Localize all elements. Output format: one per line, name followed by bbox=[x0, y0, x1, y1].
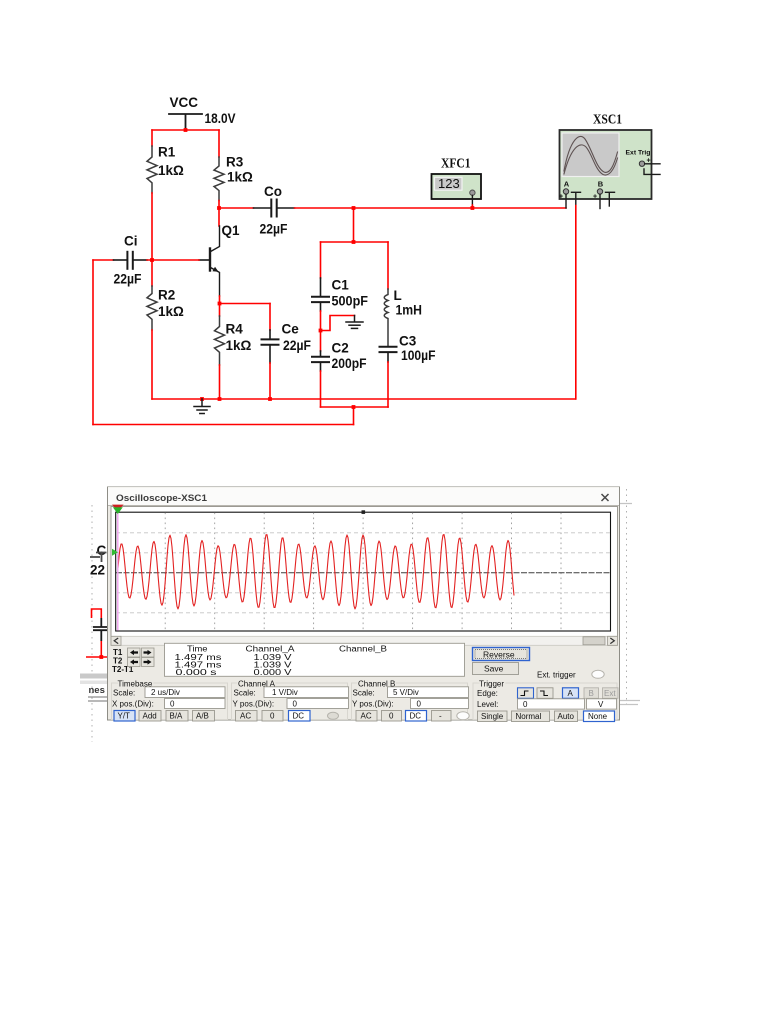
group Trigger bbox=[473, 680, 618, 722]
waveform channel A bbox=[118, 535, 514, 609]
node R4 on bus bbox=[218, 397, 222, 401]
svg-text:-: - bbox=[439, 712, 442, 721]
background page boundary dashed line right bbox=[626, 489, 628, 706]
svg-text:1kΩ: 1kΩ bbox=[158, 304, 184, 319]
svg-text:L: L bbox=[394, 288, 402, 303]
wire ground bus bbox=[152, 398, 576, 400]
svg-text:R3: R3 bbox=[226, 155, 244, 170]
wire scope A minus pin bbox=[575, 193, 577, 206]
wire base row bbox=[147, 259, 199, 261]
grid vertical dotted lines bbox=[165, 513, 561, 632]
svg-text:B/A: B/A bbox=[170, 712, 184, 721]
node tank top bbox=[352, 240, 356, 244]
wire tank ground tap bbox=[321, 316, 355, 331]
svg-text:None: None bbox=[588, 712, 608, 721]
svg-text:+: + bbox=[593, 194, 597, 201]
wire C1 to C2 bbox=[320, 311, 322, 351]
background gray band left bbox=[80, 674, 107, 679]
button Reverse bbox=[473, 648, 530, 661]
node XFC1 tap on output wire bbox=[471, 206, 475, 210]
background gray lines right bbox=[620, 504, 640, 705]
svg-text:Trigger: Trigger bbox=[479, 680, 504, 689]
cursor 1 vertical line bbox=[117, 513, 119, 631]
background hidden wire corner bbox=[92, 609, 102, 618]
resistor R4 bbox=[215, 316, 225, 365]
ground symbol tank bbox=[346, 316, 363, 329]
svg-text:200pF: 200pF bbox=[332, 356, 367, 371]
svg-text:1kΩ: 1kΩ bbox=[226, 338, 252, 353]
window close button bbox=[602, 494, 609, 501]
wire R1 top bbox=[151, 130, 153, 146]
svg-text:22: 22 bbox=[90, 563, 105, 578]
svg-text:Channel_B: Channel_B bbox=[339, 645, 387, 654]
background page boundary dashed line left bbox=[91, 505, 93, 742]
svg-text:XFC1: XFC1 bbox=[441, 157, 471, 172]
plot white container bbox=[111, 507, 618, 638]
svg-text:22µF: 22µF bbox=[260, 222, 288, 237]
svg-text:X pos.(Div):: X pos.(Div): bbox=[112, 699, 154, 708]
background hidden capacitor plates bbox=[93, 618, 107, 641]
capacitor C2 bbox=[312, 351, 329, 371]
svg-text:18.0V: 18.0V bbox=[205, 111, 236, 126]
svg-text:22µF: 22µF bbox=[283, 338, 311, 353]
svg-text:A/B: A/B bbox=[196, 712, 209, 721]
scrollbar row bbox=[111, 636, 618, 645]
svg-text:A: A bbox=[568, 689, 574, 698]
svg-text:Auto: Auto bbox=[558, 712, 575, 721]
svg-text:B: B bbox=[589, 689, 594, 698]
node collector junction bbox=[217, 206, 221, 210]
grid horizontal dashed lines bbox=[116, 533, 610, 613]
svg-text:V: V bbox=[598, 700, 604, 709]
wire output row left bbox=[219, 207, 254, 209]
plot area border bbox=[116, 512, 611, 631]
wire output row right bbox=[295, 207, 567, 209]
svg-text:Single: Single bbox=[481, 712, 504, 721]
readout headers bbox=[187, 645, 387, 654]
wire R3 top bbox=[218, 130, 220, 157]
node Ce on bus bbox=[268, 397, 272, 401]
svg-text:C1: C1 bbox=[332, 278, 350, 293]
oscilloscope window frame bbox=[108, 487, 620, 720]
resistor R3 bbox=[214, 157, 224, 201]
wire C1 top bbox=[320, 242, 322, 278]
svg-text:B: B bbox=[598, 179, 604, 188]
svg-text:Co: Co bbox=[264, 184, 282, 199]
instrument XSC1 box bbox=[560, 130, 652, 199]
wire tank top edge bbox=[321, 241, 389, 243]
svg-text:22µF: 22µF bbox=[114, 272, 142, 287]
wire C2 bottom bbox=[320, 371, 322, 407]
svg-text:0: 0 bbox=[417, 699, 422, 708]
background hidden junction bbox=[99, 655, 103, 659]
ext trigger terminal ellipse bbox=[592, 670, 604, 678]
terminal XSC1 B bbox=[593, 189, 615, 201]
button Save bbox=[473, 663, 519, 675]
svg-text:1 V/Div: 1 V/Div bbox=[272, 688, 298, 697]
cursor T2 marker bbox=[362, 510, 366, 514]
svg-text:Add: Add bbox=[143, 712, 157, 721]
wire scope B plus pin dangling bbox=[599, 194, 601, 208]
svg-text:DC: DC bbox=[293, 712, 305, 721]
background hidden wire lower bbox=[86, 641, 107, 657]
channel A reference marker bbox=[112, 549, 118, 556]
capacitor Ci bbox=[114, 252, 148, 269]
capacitor C3 bbox=[380, 347, 397, 362]
svg-text:100µF: 100µF bbox=[401, 348, 436, 363]
cursor readout labels T1 T2 bbox=[112, 648, 134, 674]
wire Ce bottom bbox=[269, 363, 271, 399]
group Timebase bbox=[112, 680, 228, 721]
svg-text:VCC: VCC bbox=[170, 95, 199, 110]
svg-text:R2: R2 bbox=[158, 288, 175, 303]
wire scope A plus pin bbox=[565, 194, 567, 208]
cursor 1 handle bbox=[112, 505, 124, 512]
svg-text:Save: Save bbox=[484, 664, 504, 674]
svg-text:Ext. trigger: Ext. trigger bbox=[537, 671, 576, 680]
svg-text:AC: AC bbox=[361, 712, 372, 721]
svg-text:Q1: Q1 bbox=[222, 223, 241, 238]
svg-text:500pF: 500pF bbox=[332, 294, 369, 309]
wire collector stub bbox=[218, 208, 220, 226]
wire tank bottom edge bbox=[321, 406, 389, 408]
terminal XSC1 A bbox=[559, 189, 581, 201]
svg-text:C2: C2 bbox=[332, 341, 349, 356]
group Channel B bbox=[352, 680, 470, 721]
wire R2 bottom bbox=[151, 330, 153, 399]
node tank ground junction bbox=[319, 329, 323, 333]
svg-text:0.000 s: 0.000 s bbox=[176, 668, 217, 677]
background gray lines left bbox=[88, 697, 107, 701]
svg-text:Y pos.(Div):: Y pos.(Div): bbox=[352, 699, 394, 708]
svg-text:Scale:: Scale: bbox=[353, 689, 375, 698]
instrument XFC1 box bbox=[432, 174, 482, 199]
svg-text:Level:: Level: bbox=[477, 700, 498, 709]
resistor R1 bbox=[147, 146, 157, 193]
svg-text:XSC1: XSC1 bbox=[593, 113, 622, 128]
svg-text:Scale:: Scale: bbox=[234, 689, 256, 698]
capacitor C1 bbox=[312, 278, 329, 311]
svg-text:Y pos.(Div):: Y pos.(Div): bbox=[233, 699, 275, 708]
svg-text:Reverse: Reverse bbox=[483, 650, 515, 660]
svg-text:Ext: Ext bbox=[604, 689, 616, 698]
wire Ci left bbox=[93, 259, 114, 261]
node base junction bbox=[150, 258, 154, 262]
wire R1 bottom to base node bbox=[151, 193, 153, 260]
svg-text:0: 0 bbox=[270, 712, 275, 721]
svg-text:5 V/Div: 5 V/Div bbox=[393, 688, 419, 697]
wire Ce top bbox=[269, 304, 271, 331]
svg-text:R1: R1 bbox=[158, 145, 176, 160]
node VCC junction bbox=[184, 128, 188, 132]
capacitor Co bbox=[254, 200, 295, 217]
wire emitter stub bbox=[219, 296, 221, 304]
wire tank top tap bbox=[353, 208, 355, 242]
svg-text:A: A bbox=[564, 179, 570, 188]
background hidden capacitor symbol bbox=[90, 552, 107, 563]
svg-text:0.000 V: 0.000 V bbox=[254, 668, 293, 677]
wire emitter to Ce bbox=[220, 303, 271, 305]
node ground tap bbox=[200, 397, 204, 401]
svg-text:Y/T: Y/T bbox=[118, 712, 131, 721]
resistor R2 bbox=[147, 286, 157, 330]
wire XFC1 pin red bbox=[471, 205, 473, 208]
svg-text:Ext Trig: Ext Trig bbox=[626, 150, 651, 157]
wire R4 bottom bbox=[219, 365, 221, 399]
wire scope B minus pin dangling bbox=[608, 193, 610, 206]
wire scope A minus to bus bbox=[575, 206, 577, 400]
wire feedback left bbox=[92, 260, 94, 425]
svg-text:C3: C3 bbox=[399, 334, 417, 349]
svg-text:AC: AC bbox=[240, 712, 251, 721]
svg-text:nes: nes bbox=[89, 685, 105, 696]
svg-text:2 us/Div: 2 us/Div bbox=[151, 688, 180, 697]
svg-text:Ce: Ce bbox=[282, 322, 300, 337]
svg-text:123: 123 bbox=[438, 176, 460, 191]
node tank tap on output wire bbox=[352, 206, 356, 210]
svg-text:0: 0 bbox=[293, 699, 298, 708]
svg-text:DC: DC bbox=[410, 712, 422, 721]
wire tank bottom drop bbox=[353, 407, 355, 425]
svg-text:Edge:: Edge: bbox=[477, 689, 498, 698]
inductor L bbox=[384, 289, 388, 346]
transistor Q1 bbox=[199, 226, 220, 296]
svg-text:1kΩ: 1kΩ bbox=[158, 163, 184, 178]
svg-text:1mH: 1mH bbox=[396, 303, 423, 318]
svg-text:0: 0 bbox=[389, 712, 394, 721]
wire VCC rail bbox=[152, 129, 219, 131]
cursor readout box bbox=[165, 643, 465, 676]
wire feedback bottom bbox=[93, 424, 354, 426]
node tank bottom bbox=[352, 405, 356, 409]
capacitor Ce bbox=[262, 330, 279, 363]
svg-text:1kΩ: 1kΩ bbox=[227, 170, 253, 185]
plot center axis line bbox=[116, 572, 610, 574]
wire L top bbox=[387, 242, 389, 289]
readout values bbox=[175, 653, 293, 677]
svg-text:+: + bbox=[559, 194, 563, 201]
group Channel A bbox=[232, 680, 349, 721]
svg-text:0: 0 bbox=[523, 700, 528, 709]
svg-text:R4: R4 bbox=[226, 322, 244, 337]
power symbol VCC bbox=[169, 114, 202, 129]
wire R4 top bbox=[219, 304, 221, 317]
svg-text:Scale:: Scale: bbox=[113, 689, 135, 698]
ground symbol main bbox=[194, 399, 210, 414]
wire XFC1 pin bbox=[471, 195, 473, 205]
svg-text:0: 0 bbox=[170, 699, 175, 708]
cursor arrow buttons bbox=[128, 648, 155, 667]
svg-text:Normal: Normal bbox=[516, 712, 542, 721]
wire R3 bottom to collector node bbox=[218, 201, 220, 209]
terminal XSC1 ext trig bbox=[639, 158, 660, 175]
wire R2 top bbox=[151, 260, 153, 286]
svg-text:Oscilloscope-XSC1: Oscilloscope-XSC1 bbox=[116, 493, 207, 503]
svg-text:Ci: Ci bbox=[124, 234, 138, 249]
wire C3 bottom bbox=[387, 362, 389, 407]
node emitter junction bbox=[218, 302, 222, 306]
